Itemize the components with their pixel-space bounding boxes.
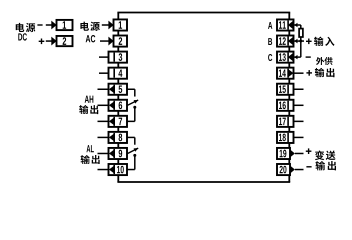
wire stub terminal 16: [294, 104, 304, 106]
instrument body outline right edge (threads terminals 11-20): [288, 13, 290, 183]
plus sign (input +): [306, 39, 312, 45]
terminal 20 (transmit output, out-arrow): [277, 164, 295, 175]
label DC: [18, 33, 27, 40]
label 输出 (output): [315, 68, 335, 77]
DC plus sign: [39, 39, 45, 45]
label AH: [85, 96, 94, 103]
label AL: [87, 145, 94, 152]
junction dot at terminal 12 wire: [299, 40, 302, 43]
wire into DC terminal 1 with arrowhead: [46, 21, 57, 30]
plus sign (supply output +): [306, 70, 312, 76]
terminal 9 (relay output, out-arrow): [109, 148, 128, 159]
DC minus sign: [37, 24, 42, 25]
terminal 3: [109, 52, 128, 63]
relay changeover contact AH (terminals 5-6-7): [127, 89, 138, 121]
label 输出 (transmit output): [316, 161, 337, 170]
label 输入 (input): [314, 37, 334, 46]
terminal 17: [277, 116, 294, 127]
wire stub terminal 20: [295, 169, 304, 171]
wire stub terminal 4: [99, 72, 109, 74]
terminal 13 (input, in-arrow): [277, 52, 294, 63]
wire into terminal 1 with arrowhead: [102, 21, 114, 30]
wire stub terminal 14: [294, 72, 304, 74]
terminal 2 (AC power): [114, 36, 128, 47]
terminal 14 (supply output, out-arrow): [277, 68, 294, 79]
terminal 4: [109, 68, 128, 79]
terminal 16: [277, 100, 294, 111]
instrument body outline bottom edge: [117, 181, 290, 183]
wire terminal 13 with in-arrowhead: [294, 55, 301, 60]
relay changeover contact AL (terminals 8-9-10): [127, 137, 138, 169]
label 变送 (transmit): [315, 151, 336, 161]
terminal 1 (AC power): [114, 19, 128, 30]
label C (terminal 13): [268, 54, 272, 61]
wire into terminal 2 with arrowhead: [100, 37, 114, 46]
DC power terminal 1: [57, 20, 73, 30]
terminal 6 (relay output, out-arrow): [109, 100, 128, 111]
label AH 输出 (output): [79, 105, 98, 114]
terminal 11 (input, in-arrow): [277, 19, 294, 30]
instrument body outline left edge (threads terminals 1-10): [117, 13, 119, 183]
instrument body outline top edge: [117, 12, 290, 14]
DC power terminal 2: [57, 36, 73, 46]
label 电源 (power) DC group: [16, 23, 36, 32]
terminal 18: [277, 132, 294, 143]
vertical link wire terminals 11-12-13: [300, 25, 302, 57]
wire stub terminal 7: [98, 120, 109, 122]
label 电源 (power) AC group: [80, 22, 99, 31]
wire stub terminal 5: [98, 88, 109, 90]
wire into DC terminal 2 with arrowhead: [46, 37, 57, 46]
terminal 12 (input, in-arrow): [277, 36, 294, 47]
label B (terminal 12): [268, 38, 272, 45]
wire stub terminal 6: [98, 104, 109, 106]
wire stub terminal 9: [98, 152, 109, 154]
wire stub terminal 17: [294, 120, 304, 122]
minus sign (transmit -): [306, 166, 311, 167]
wire stub terminal 19: [295, 152, 304, 154]
terminal 5 (relay output, out-arrow): [109, 84, 128, 95]
resistor (3-wire balance) between terminals 11 and 12: [299, 29, 303, 37]
label AC: [86, 35, 96, 42]
terminal 7 (relay output, out-arrow): [109, 116, 128, 127]
terminal 8 (relay output, out-arrow): [109, 132, 128, 143]
terminal 15: [277, 84, 294, 95]
label A (terminal 11): [268, 22, 272, 29]
wire stub terminal 8: [98, 136, 109, 138]
wire stub terminal 15: [294, 88, 304, 90]
wire terminal 12 with in-arrowhead: [294, 39, 304, 44]
plus sign (transmit +): [306, 148, 312, 154]
terminal 10 (relay output, out-arrow): [109, 164, 128, 175]
wire terminal 11 with in-arrowhead: [294, 23, 301, 28]
wire stub terminal 10: [98, 169, 109, 171]
minus sign (supply -): [306, 56, 311, 57]
wire stub terminal 18: [294, 136, 304, 138]
label 外供 (external supply): [316, 57, 333, 65]
wire stub terminal 3: [99, 56, 109, 58]
label AL 输出 (output): [81, 155, 100, 164]
terminal 19 (transmit output, out-arrow): [277, 148, 295, 159]
